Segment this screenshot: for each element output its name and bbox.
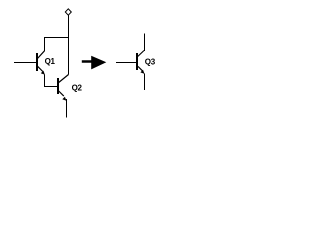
wire: Q1 collector vertical [44,37,46,51]
wire: top horizontal from Q1 collector branch to vertical [44,37,69,39]
wire: Q2 emitter down [66,99,68,118]
equivalence arrow [82,56,107,70]
wire: Q1 base input [14,62,36,64]
svg-text:Q3: Q3 [145,58,156,67]
Q1 collector diagonal [38,51,45,59]
Q1 label [45,57,56,66]
wire: diamond down to Q2 collector junction [68,15,70,75]
wire: Q3 base input [116,62,136,64]
Q1 base bar [36,53,38,71]
Q3 label [145,58,156,67]
Q3 emitter diagonal [138,66,142,70]
wire: Q1 emitter down [44,75,46,88]
Q2 emitter arrowhead [62,97,66,101]
svg-text:Q2: Q2 [72,83,83,92]
transistor Q2 [57,75,69,101]
wire: Q3 emitter stub [144,74,146,91]
Q3 base bar [136,53,138,70]
terminal diamond (collector terminal) [65,9,71,15]
Q2 label [72,83,83,92]
Q1 emitter diagonal [38,66,43,71]
wire: Q3 collector stub [144,34,146,51]
transistor Q3 [136,51,145,74]
Q3 collector diagonal [138,51,144,57]
Q2 emitter diagonal [59,91,64,96]
transistor Q1 [36,51,45,75]
wire: Q1 emitter to Q2 base [44,86,57,88]
Q3 emitter arrowhead [140,70,144,74]
Q2 collector diagonal [59,75,69,83]
Q2 base bar [57,78,59,94]
svg-text:Q1: Q1 [45,57,56,66]
Q1 emitter arrowhead [41,71,45,75]
